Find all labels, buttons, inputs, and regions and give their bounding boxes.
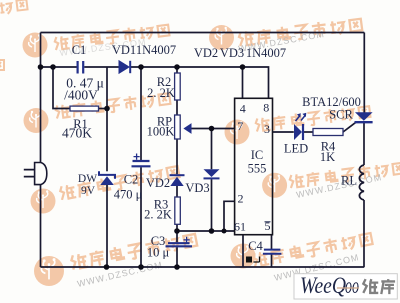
svg-text:oo: oo xyxy=(345,273,359,298)
capacitor C3 xyxy=(166,243,193,246)
resistor R2 xyxy=(175,73,181,100)
svg-text:1: 1 xyxy=(240,220,246,234)
node R3 bottom xyxy=(174,228,180,234)
zener DW xyxy=(99,171,115,185)
wire right rail lower xyxy=(363,200,365,267)
weiqoo logo box (decorative) xyxy=(294,273,397,299)
node C1 branch xyxy=(50,64,56,70)
svg-text:9V: 9V xyxy=(81,185,96,197)
svg-text:100K: 100K xyxy=(147,125,175,139)
svg-text:C2: C2 xyxy=(124,173,139,187)
node C2 branch xyxy=(138,64,144,70)
capacitor C2 polarity + xyxy=(134,154,140,160)
svg-text:10 μ: 10 μ xyxy=(147,246,170,260)
svg-text:8: 8 xyxy=(263,101,269,115)
diode VD2 xyxy=(170,175,185,186)
svg-text:5: 5 xyxy=(265,219,271,233)
svg-text:470 μ: 470 μ xyxy=(114,188,143,202)
svg-text:1N4007: 1N4007 xyxy=(246,46,286,60)
svg-text:RL: RL xyxy=(341,174,357,188)
svg-text:555: 555 xyxy=(248,162,267,176)
node left rail / y67 xyxy=(38,64,44,70)
node pin2 join xyxy=(222,229,227,234)
svg-text:LED: LED xyxy=(284,142,308,156)
svg-text:IC: IC xyxy=(251,148,264,162)
svg-text:1N4007: 1N4007 xyxy=(136,43,176,57)
wire LED to R4 xyxy=(303,131,313,133)
svg-text:/400V: /400V xyxy=(64,88,98,103)
diode VD1 xyxy=(119,61,130,73)
potentiometer RP xyxy=(175,115,181,139)
wire top rail xyxy=(41,32,365,34)
capacitor C1 xyxy=(78,61,84,74)
wire pin 2 route xyxy=(224,201,235,231)
SCR / triac xyxy=(355,112,373,122)
wire pin6 line y231 xyxy=(177,230,235,232)
svg-text:VD1: VD1 xyxy=(112,43,136,57)
svg-text:VD2: VD2 xyxy=(194,46,218,60)
wire VD3 branch xyxy=(211,129,213,232)
svg-text:WeeQ: WeeQ xyxy=(300,273,346,298)
node VD3 bottom xyxy=(209,228,215,234)
wire left rail upper xyxy=(40,33,42,163)
svg-text:7: 7 xyxy=(237,119,243,133)
svg-text:VD3: VD3 xyxy=(185,181,209,195)
svg-text:2. 2K: 2. 2K xyxy=(144,208,172,222)
svg-text:VD2: VD2 xyxy=(146,176,170,190)
wire main line y67 left of C1 xyxy=(41,66,77,68)
svg-text:3: 3 xyxy=(264,122,270,136)
capacitor C2 xyxy=(132,161,151,166)
svg-text:2. 2K: 2. 2K xyxy=(147,86,175,100)
node R1 right xyxy=(104,106,110,112)
circuit wires and symbols xyxy=(41,33,365,268)
svg-text:2: 2 xyxy=(238,192,244,206)
svg-text:4: 4 xyxy=(240,102,246,116)
svg-text:1K: 1K xyxy=(320,150,335,164)
resistor R4 xyxy=(313,129,343,136)
wire left rail lower xyxy=(40,185,42,267)
wire pin 3 to LED xyxy=(273,131,294,133)
wire right rail upper xyxy=(363,33,365,113)
node ground x177 xyxy=(174,264,180,270)
wire right rail middle xyxy=(363,123,365,165)
wire x141 upper xyxy=(140,67,142,160)
svg-text:DW: DW xyxy=(78,173,97,185)
wire RP wiper to pin 7 xyxy=(191,128,235,130)
svg-text:VD3: VD3 xyxy=(220,46,244,60)
wire C1 to VD1 xyxy=(84,66,119,68)
capacitor C4 xyxy=(263,250,282,254)
wire x107 upper xyxy=(106,67,108,171)
node R2 branch xyxy=(174,64,180,70)
svg-text:C1: C1 xyxy=(72,43,87,57)
diode VD3 xyxy=(204,169,220,178)
svg-text:WWW.DZSC.COM: WWW.DZSC.COM xyxy=(76,260,164,289)
wire VD1 to pin 8 corner xyxy=(131,67,269,98)
resistor R3 xyxy=(175,197,181,224)
svg-text:SCR: SCR xyxy=(329,108,353,122)
wire x177 segments xyxy=(176,67,178,267)
capacitor C3 polarity + xyxy=(184,237,190,243)
wire x141 lower xyxy=(140,167,142,267)
resistor R1 xyxy=(70,106,99,111)
inductor RL xyxy=(359,165,364,200)
LED D1 xyxy=(294,113,306,140)
svg-text:C4: C4 xyxy=(248,239,263,253)
wire pin 4 drop xyxy=(242,67,244,98)
wire bottom rail xyxy=(41,266,365,268)
wire C1/R1 parallel branch xyxy=(53,67,70,109)
pin 5 overbar xyxy=(265,221,271,223)
IC U1 555 box xyxy=(235,98,273,234)
wire pin 5 to C4 xyxy=(271,235,273,267)
node wiper/VD3 xyxy=(209,126,215,132)
wire R4 to SCR gate xyxy=(343,123,356,132)
node ground x141 xyxy=(138,264,144,270)
wire R1 right xyxy=(99,108,108,110)
wire pin 1 drop xyxy=(242,235,244,267)
node pin 4 branch xyxy=(240,64,246,70)
node ground x107 xyxy=(104,264,110,270)
C4 value mark xyxy=(246,257,260,263)
potentiometer RP wiper arrow xyxy=(183,123,191,134)
wire x107 lower xyxy=(106,185,108,267)
mains plug xyxy=(24,163,47,185)
svg-text:470K: 470K xyxy=(62,126,92,141)
